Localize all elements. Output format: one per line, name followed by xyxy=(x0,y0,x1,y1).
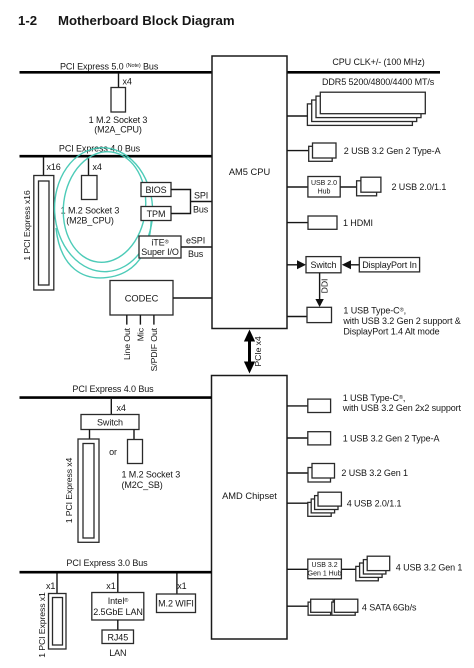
LAN Intel xyxy=(92,593,144,621)
wire x1 slot drop xyxy=(56,574,58,594)
wire usb-c 2x2 xyxy=(287,405,308,407)
port 2 USB 2.0/1.1 xyxy=(357,177,381,196)
svg-text:TPM: TPM xyxy=(147,209,166,219)
svg-text:Hub: Hub xyxy=(318,189,331,196)
port 2 USB 3.2 Gen 2 Type-A xyxy=(309,143,336,161)
svg-text:LAN: LAN xyxy=(109,648,126,658)
port 4 SATA xyxy=(308,599,358,615)
wire USB A cpu xyxy=(287,150,309,152)
svg-text:AM5 CPU: AM5 CPU xyxy=(229,167,270,177)
port USB Type-C cpu xyxy=(307,307,332,322)
port M.2 WIFI xyxy=(157,594,196,613)
wire gen2 type-a xyxy=(287,437,308,439)
svg-text:DisplayPort 1.4 Alt mode: DisplayPort 1.4 Alt mode xyxy=(343,327,439,337)
wire switch drop xyxy=(110,399,112,415)
svg-text:PCI Express 3.0 Bus: PCI Express 3.0 Bus xyxy=(66,558,148,568)
svg-text:1-2: 1-2 xyxy=(18,13,37,28)
svg-text:Line Out: Line Out xyxy=(122,327,132,360)
CPU AM5 xyxy=(212,56,287,329)
port 4 USB 2.0/1.1 xyxy=(308,492,342,516)
svg-text:PCIe x4: PCIe x4 xyxy=(253,336,263,366)
M.2 socket M2C_SB xyxy=(128,440,143,464)
M.2 socket M2A_CPU xyxy=(111,88,126,113)
wire wifi drop xyxy=(176,574,178,595)
wire rj45 drop xyxy=(117,620,119,630)
svg-text:CPU CLK+/- (100 MHz): CPU CLK+/- (100 MHz) xyxy=(332,57,424,67)
svg-text:(M2B_CPU): (M2B_CPU) xyxy=(66,216,114,226)
super I/O iTE xyxy=(139,236,181,258)
svg-text:2 USB 3.2 Gen 2 Type-A: 2 USB 3.2 Gen 2 Type-A xyxy=(344,146,441,156)
annotation teal circle xyxy=(51,145,155,278)
svg-text:(M2A_CPU): (M2A_CPU) xyxy=(94,125,142,135)
svg-text:(M2C_SB): (M2C_SB) xyxy=(122,480,163,490)
switch pcie xyxy=(81,415,139,430)
wire lan drop xyxy=(117,574,119,593)
svg-text:Switch: Switch xyxy=(311,260,337,270)
wire usb-c cpu xyxy=(287,316,307,318)
svg-text:x1: x1 xyxy=(177,581,186,591)
wire switch stubs xyxy=(90,430,135,440)
svg-text:1 M.2 Socket 3: 1 M.2 Socket 3 xyxy=(61,206,120,216)
svg-text:PCI Express 4.0 Bus: PCI Express 4.0 Bus xyxy=(72,384,154,394)
bus PCI Express 4.0 lower xyxy=(20,396,212,399)
hub USB 3.2 Gen 1 xyxy=(308,559,342,579)
BIOS xyxy=(141,183,171,197)
wire x16 drop xyxy=(43,157,45,176)
wire DDI arrow xyxy=(319,273,321,300)
codec xyxy=(110,281,173,316)
svg-text:4 USB 2.0/1.1: 4 USB 2.0/1.1 xyxy=(347,499,402,509)
wire eSPI bus xyxy=(181,246,212,248)
svg-text:x1: x1 xyxy=(106,581,115,591)
svg-text:x16: x16 xyxy=(47,162,61,172)
svg-text:x4: x4 xyxy=(123,77,132,87)
svg-text:S/PDIF Out: S/PDIF Out xyxy=(149,327,159,371)
port 1 USB 3.2 Gen 2 Type-A xyxy=(308,432,331,445)
svg-text:1 PCI Express x1: 1 PCI Express x1 xyxy=(37,592,47,658)
TPM xyxy=(141,207,171,221)
hub USB 2.0 xyxy=(308,177,340,198)
svg-text:1 HDMI: 1 HDMI xyxy=(343,218,373,228)
wire HDMI xyxy=(287,222,308,224)
svg-text:RJ45: RJ45 xyxy=(107,633,128,643)
svg-text:1 PCI Express x16: 1 PCI Express x16 xyxy=(22,190,32,261)
port 2 USB 3.2 Gen 1 xyxy=(308,464,335,483)
bus PCI Express 4.0 upper xyxy=(20,155,213,158)
port DisplayPort In xyxy=(359,258,419,272)
svg-text:x4: x4 xyxy=(93,162,102,172)
wire audio stubs xyxy=(127,315,154,325)
wire M2B drop xyxy=(88,157,90,176)
memory DIMM stack xyxy=(307,92,425,125)
port USB Type-C chipset xyxy=(308,399,331,412)
svg-text:Switch: Switch xyxy=(97,418,123,428)
svg-text:DisplayPort In: DisplayPort In xyxy=(362,260,417,270)
wire 4 usb 2.0 xyxy=(287,502,308,504)
wire SPI bus xyxy=(171,190,212,214)
svg-text:Bus: Bus xyxy=(188,249,204,259)
PCI Express x1 slot xyxy=(49,594,67,650)
chipset AMD xyxy=(212,376,288,640)
svg-text:AMD Chipset: AMD Chipset xyxy=(222,491,277,501)
svg-text:4 SATA 6Gb/s: 4 SATA 6Gb/s xyxy=(362,603,417,613)
svg-text:Super I/O: Super I/O xyxy=(141,247,179,257)
svg-text:BIOS: BIOS xyxy=(145,185,166,195)
wire arrow DP to switch xyxy=(350,264,359,266)
svg-text:or: or xyxy=(109,447,117,457)
svg-text:1 M.2 Socket 3: 1 M.2 Socket 3 xyxy=(89,115,148,125)
svg-text:with USB 3.2 Gen 2x2 support: with USB 3.2 Gen 2x2 support xyxy=(342,403,462,413)
svg-text:1 USB Type-C®,: 1 USB Type-C®, xyxy=(343,393,406,403)
PCI Express x16 slot xyxy=(34,176,54,291)
svg-text:USB 2.0: USB 2.0 xyxy=(311,180,337,187)
wire 2 usb gen1 xyxy=(287,472,308,474)
svg-text:x1: x1 xyxy=(46,581,55,591)
svg-text:PCI Express 5.0 (Note) Bus: PCI Express 5.0 (Note) Bus xyxy=(60,62,159,72)
svg-text:CODEC: CODEC xyxy=(125,294,159,304)
svg-text:Motherboard Block Diagram: Motherboard Block Diagram xyxy=(58,13,235,28)
svg-text:2.5GbE LAN: 2.5GbE LAN xyxy=(93,607,143,617)
svg-text:1 M.2 Socket 3: 1 M.2 Socket 3 xyxy=(122,470,181,480)
M.2 socket M2B_CPU xyxy=(82,176,98,200)
port HDMI xyxy=(308,216,337,229)
svg-text:Bus: Bus xyxy=(193,205,209,215)
bus PCI Express 3.0 xyxy=(20,571,212,574)
svg-text:Mic: Mic xyxy=(135,327,145,341)
port 4 USB 3.2 Gen 1 xyxy=(356,556,390,581)
svg-text:x4: x4 xyxy=(117,403,126,413)
svg-text:2 USB 3.2 Gen 1: 2 USB 3.2 Gen 1 xyxy=(341,468,408,478)
svg-text:SPI: SPI xyxy=(194,191,208,201)
PCI Express x4 slot xyxy=(78,439,99,542)
switch DP xyxy=(306,257,341,273)
svg-text:eSPI: eSPI xyxy=(186,236,205,246)
svg-text:2 USB 2.0/1.1: 2 USB 2.0/1.1 xyxy=(392,182,447,192)
svg-text:with USB 3.2 Gen 2 support &: with USB 3.2 Gen 2 support & xyxy=(342,316,460,326)
svg-text:DDI: DDI xyxy=(320,279,330,294)
svg-text:1 PCI Express x4: 1 PCI Express x4 xyxy=(64,457,74,523)
svg-text:Gen 1 Hub: Gen 1 Hub xyxy=(308,571,342,578)
svg-text:1 USB Type-C®,: 1 USB Type-C®, xyxy=(343,306,406,316)
wire arrow cpu to switch xyxy=(287,264,298,266)
wire DDR5 xyxy=(287,115,307,117)
wire PCIe x4 arrow xyxy=(244,330,263,374)
wire hub cpu xyxy=(287,186,357,188)
wire M2A drop xyxy=(118,73,120,88)
svg-text:4 USB 3.2 Gen 1: 4 USB 3.2 Gen 1 xyxy=(396,563,463,573)
svg-text:M.2 WIFI: M.2 WIFI xyxy=(158,599,194,609)
bus PCI Express 5.0 xyxy=(20,71,213,74)
port RJ45 xyxy=(102,630,134,644)
svg-text:USB 3.2: USB 3.2 xyxy=(312,562,338,569)
wire sata xyxy=(287,605,311,607)
wire codec to CPU xyxy=(173,297,212,299)
wire hub gen1 xyxy=(287,568,356,570)
bus CPU CLK wire xyxy=(287,71,440,74)
svg-text:1 USB 3.2 Gen 2 Type-A: 1 USB 3.2 Gen 2 Type-A xyxy=(343,434,440,444)
svg-text:DDR5 5200/4800/4400 MT/s: DDR5 5200/4800/4400 MT/s xyxy=(322,77,435,87)
